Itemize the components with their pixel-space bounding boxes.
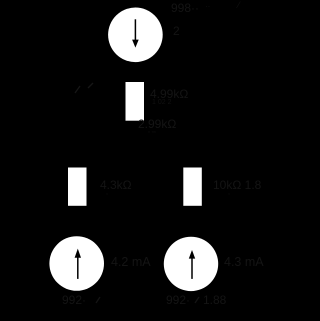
svg-text:,: , bbox=[106, 189, 108, 196]
svg-text:1 02 2: 1 02 2 bbox=[152, 99, 172, 106]
svg-text:,: , bbox=[228, 189, 230, 196]
svg-text:1.88: 1.88 bbox=[203, 293, 227, 307]
svg-text:2: 2 bbox=[173, 24, 180, 38]
resistor R3 (right branch) bbox=[183, 168, 202, 206]
current source I1 (top) bbox=[108, 8, 163, 63]
svg-text:10kΩ 1.8: 10kΩ 1.8 bbox=[213, 178, 262, 192]
svg-text:··: ·· bbox=[205, 2, 210, 11]
svg-text:992·: 992· bbox=[166, 293, 190, 307]
svg-text:„ „„: „ „„ bbox=[148, 128, 156, 134]
svg-text:2.99kΩ: 2.99kΩ bbox=[138, 117, 176, 131]
svg-text:4.2 mA: 4.2 mA bbox=[111, 255, 151, 269]
resistor R1 (top) bbox=[126, 82, 145, 121]
svg-text:4.3 mA: 4.3 mA bbox=[224, 255, 264, 269]
svg-text:⁄: ⁄ bbox=[236, 0, 241, 10]
svg-text:992·: 992· bbox=[62, 293, 86, 307]
svg-text:4.3kΩ: 4.3kΩ bbox=[100, 178, 132, 192]
wire stub marks left of R1 bbox=[75, 86, 80, 93]
resistor R2 (left branch) bbox=[68, 168, 87, 206]
svg-text:998··: 998·· bbox=[171, 1, 199, 15]
current source I2 (bottom left) bbox=[49, 236, 104, 291]
current source I3 (bottom right) bbox=[164, 237, 218, 291]
